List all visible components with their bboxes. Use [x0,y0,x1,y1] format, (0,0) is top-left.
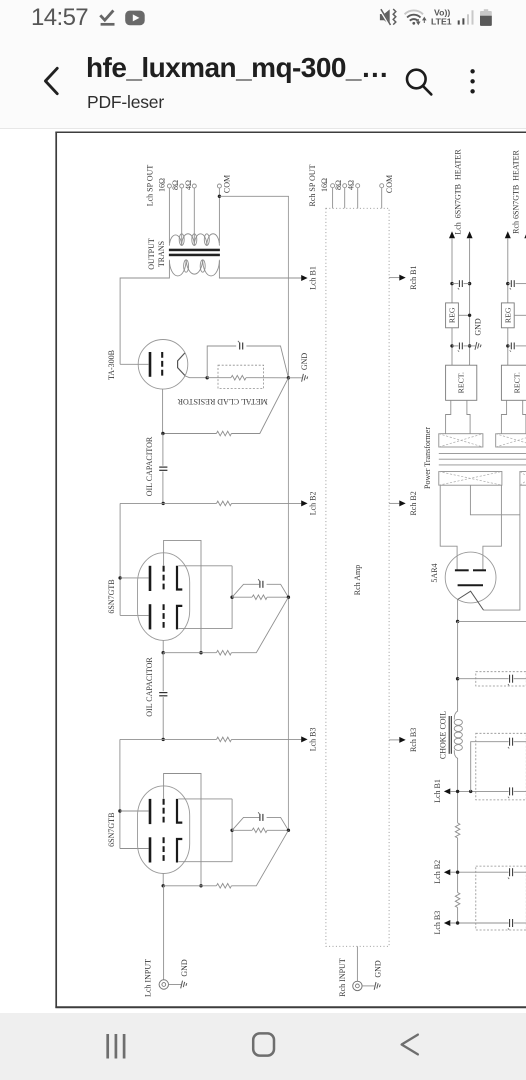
arrow Rch B3 [399,737,405,743]
svg-text:GND: GND [180,959,189,977]
svg-text:5AR4: 5AR4 [430,563,439,582]
wire 16ohm tap [168,188,170,243]
wire Lch B2 supply row [450,871,508,873]
wire V2 cathode1 lead [178,565,232,567]
output transformer T1 secondary winding [169,234,219,246]
appbar icon back [45,68,57,93]
wire heater cap row 3 [508,283,526,285]
wire Rch input ground stem [362,985,374,987]
node heater cap 2b [468,344,471,347]
capacitor filter C upper [510,868,513,876]
arrow Lch B1 [301,275,307,281]
node heater cap 2a [450,344,453,347]
wire primary right lead to Lch B1 [219,261,301,278]
tube V3 grid (section 2) [163,837,165,862]
svg-text:Lch B2: Lch B2 [309,492,318,516]
wire REG output stub [458,314,469,316]
appbar icon overflow menu [470,69,474,93]
tube V2 plate (section 1) [149,566,152,591]
wire V2 lower wire to cathode bus diagonal [231,597,288,653]
resistor V1 grid leak [216,431,231,436]
transformer heater winding (Lch) [439,434,483,447]
schematic border frame bottom [55,1006,526,1008]
capacitor filter B lower [510,787,513,795]
wire metal clad resistor to ground node [246,377,288,379]
tube V2 plate (section 2) [149,604,152,629]
wire V2 cathode2 lead [178,628,232,630]
wire V1 cathode lead [184,376,207,378]
svg-text:Rch 6SN7GTB HEATER: Rch 6SN7GTB HEATER [511,149,520,233]
wire B3 line to arrow [232,738,302,740]
speaker terminal 4ohm (Lch) [192,184,196,188]
wire B+ rail below choke [457,758,459,823]
wire Rch B2 stub [389,502,399,504]
node driver2 plate bus junction [118,809,121,812]
capacitor heater filter 1 (Rch) [511,280,514,287]
polarity mark [508,684,509,686]
svg-text:6SN7GTB: 6SN7GTB [107,813,116,847]
wire filter cap B upper branch [471,742,509,792]
node V2 cathode bus junction [287,596,290,599]
status icon mute-vibrate [380,9,396,26]
capacitor oil coupling 1 [159,467,167,470]
svg-text:Rch Amp: Rch Amp [353,565,362,595]
capacitor oil coupling 2 [159,693,167,696]
node B1 rail [456,790,459,793]
node driver1 plate bus junction [118,576,121,579]
node B2 rail [456,871,459,874]
capacitor filter B upper [510,738,513,746]
node heater cap 1a [450,282,453,285]
wire B+ rail upper [457,621,459,711]
ground symbol (Lch input) [181,981,187,989]
wire 8ohm tap [181,188,183,241]
wire filter cap C lower tail [514,922,526,924]
svg-text:TRANS: TRANS [157,241,166,267]
svg-text:6SN7GTB: 6SN7GTB [107,579,116,613]
wire Lch heater line b [469,238,471,365]
wire V2 cathode bypass to bus [267,584,289,597]
node B1 cap tie [469,790,472,793]
wire Rch input lead [356,946,358,981]
resistor V3 cathode [252,828,267,833]
wire cathode to metal clad resistor [207,377,231,379]
node V3 lower wire left [162,884,165,887]
wire V3 lower grid wire [163,885,216,887]
wire to oil capacitor 1 [162,434,164,466]
status icon signal bars [458,10,474,24]
wire V3 cathode bypass to bus [267,817,289,830]
wire rail B1-B2 [457,838,459,893]
navigation bar background [0,1013,526,1080]
wire V3 cathode resistor to bus [267,829,288,831]
tube V1 plate [149,352,152,377]
wire driver2 plate lead a [120,810,149,812]
wire heater cap row 1 [452,283,470,285]
svg-text:CHOKE COIL: CHOKE COIL [438,711,447,759]
svg-text:COM: COM [223,175,232,193]
wire filter cap B upper tail [514,741,526,743]
svg-text:METAL CLAD RESISTOR: METAL CLAD RESISTOR [177,397,268,406]
svg-text:Rch B1: Rch B1 [409,265,418,289]
svg-text:8Ω: 8Ω [171,180,180,190]
wire RECT to heater winding (Rch) [501,400,526,433]
wire RECT to heater winding (Lch) [446,400,471,433]
status icon battery [480,9,492,26]
tube V4 5AR4 envelope [445,552,496,603]
wire Lch B1 supply row [450,790,508,792]
svg-text:GND: GND [374,960,383,978]
svg-text:LTE1: LTE1 [431,17,452,27]
wire V2 cathode to resistor [232,596,252,598]
app top chrome background [0,0,526,129]
wire V3 cathode1 lead [178,798,232,800]
resistor V3 grid stopper [216,884,231,889]
schematic border frame top [55,131,526,133]
capacitor V3 cathode bypass [260,814,263,821]
tube V2 cathode (section 1) [177,566,182,590]
arrow Lch B3 (supply) [444,920,450,926]
wire V1 plate lead [120,363,149,365]
svg-text:Lch 6SN7GTB HEATER: Lch 6SN7GTB HEATER [453,149,462,235]
regulator REG box (Lch) [446,303,459,328]
ground symbol (Rch input) [374,982,380,990]
polarity mark [458,288,459,290]
wire heater cap row 2 [452,345,470,347]
wire Rch B1 stub [389,277,399,279]
wire filament winding lead [484,485,520,610]
speaker terminal 16ohm (Lch) [167,184,171,188]
wire V2 lower grid wire [163,652,216,654]
polarity mark [508,797,509,799]
svg-text:Lch B3: Lch B3 [433,911,442,935]
wire Rch 16ohm lead [332,188,334,209]
arrow Rch heater supply a [505,231,511,238]
appbar icon search [407,70,431,95]
wire filter cap B lower tail [514,790,526,792]
wire V3 cathode bypass branch [232,817,259,830]
wire Lch B2 feed line [120,502,216,504]
resistor B1-B2 dropping [455,823,460,838]
svg-text:Rch B2: Rch B2 [409,491,418,515]
filter capacitor B dashed can [476,733,526,800]
svg-text:16Ω: 16Ω [320,178,329,192]
node driver1 plate node [162,502,165,505]
svg-text:RECT.: RECT. [457,372,466,393]
wire heater cap row 4 [508,345,526,347]
ground symbol (output stage) [302,374,308,382]
tube V4 cathode [458,584,483,586]
polarity mark [258,812,259,814]
node V1 cathode [206,376,209,379]
node B3 rail [456,921,459,924]
node V2 lower wire left [162,651,165,654]
wire Rch B3 stub [389,739,399,741]
wire V3 cathode tie [231,799,233,862]
wire 5AR4 cathode output lead [457,600,459,622]
svg-text:Power Transformer: Power Transformer [423,427,432,489]
arrow Rch B2 [399,500,405,506]
resistor Lch B2 dropping [217,501,232,506]
wire driver2 plate lead b [120,848,149,850]
wire COM tap [218,188,220,243]
node V1 grid node [161,432,164,435]
terminal Rch INPUT jack [353,981,362,990]
svg-text:8Ω: 8Ω [334,180,343,190]
output transformer T1 primary winding [169,260,219,276]
svg-text:GND: GND [474,318,483,336]
regulator REG box (Rch) [501,303,514,328]
polarity mark [510,350,511,352]
svg-text:Lch SP OUT: Lch SP OUT [145,165,154,207]
wire V1 grid lead down [162,389,164,433]
choke coil winding [454,711,462,758]
capacitor heater filter 1 (Lch) [459,280,462,287]
label OUTPUT TRANS [147,238,166,270]
wire V2 grid1 top lead [164,540,201,652]
tube V3 cathode (section 1) [177,799,182,823]
wire primary left lead to plate bus [120,261,169,364]
svg-text:Rch B3: Rch B3 [409,728,418,752]
wire oil capacitor 2 to driver2 plate line [162,697,164,739]
svg-text:RECT.: RECT. [513,372,522,393]
node COM junction [218,195,221,198]
tube V3 grid (section 1) [163,799,165,824]
polarity mark [508,747,509,749]
status icon youtube [125,11,145,26]
status text VoLTE [431,7,452,26]
capacitor filter C lower [510,919,513,927]
resistor V2 grid stopper [216,650,231,655]
svg-text:Lch B1: Lch B1 [309,266,318,290]
svg-text:4Ω: 4Ω [347,180,356,190]
Rch amplifier block dotted box [326,208,389,946]
svg-text:Lch B3: Lch B3 [309,728,318,752]
capacitor cathode bypass (TA-300B) [240,343,243,350]
wire Rch 8ohm lead [344,188,346,209]
resistor V2 cathode [252,595,267,600]
tube V3 plate (section 1) [149,799,152,824]
speaker terminal 8ohm (Rch) [343,184,347,188]
resistor metal clad (TA-300B cathode) [231,375,246,380]
ground bus (vertical, Lch) [287,196,289,830]
wire ground stem [288,377,301,379]
speaker terminal COM (Rch) [380,184,384,188]
tube V1 grid [161,352,163,377]
wire driver2 plate bus [119,739,121,848]
wire HV winding right lead to 5AR4 plate [483,485,502,570]
power transformer core [439,453,526,465]
polarity mark [458,350,459,352]
filter capacitor A dashed can [476,672,526,686]
polarity mark [508,928,509,930]
svg-text:REG: REG [503,307,512,323]
wire rail B2-B3 [457,908,459,924]
svg-text:OIL CAPACITOR: OIL CAPACITOR [145,436,154,496]
node V3 cathode bus junction [287,829,290,832]
wire grid leak to ground node diagonal [231,378,288,434]
tube V4 plate a [455,569,469,571]
node B+ output [456,620,459,623]
wire Rch heater line a [507,238,509,365]
node driver2 plate node [162,738,165,741]
node heater cap 1b [468,282,471,285]
tube V2 grid (section 1) [163,566,165,591]
wire 4ohm tap [193,188,195,241]
status bar clock [31,4,88,32]
svg-text:Rch SP OUT: Rch SP OUT [308,164,317,206]
wire Lch B3 supply row [450,922,508,924]
wire heater ground stem [470,345,476,347]
node V3 cathode [230,829,233,832]
arrow Rch B1 [399,275,405,281]
tube V2 6SN7GTB envelope [138,553,190,641]
output transformer T1 core [169,249,220,257]
capacitor filter A [510,675,513,683]
wire V2 cathode resistor to bus [267,596,288,598]
svg-text:OUTPUT: OUTPUT [147,238,156,270]
wire driver1 plate bus [119,503,121,615]
wire V3 cathode2 lead [178,861,232,863]
wire cathode bypass cap to ground node [246,346,288,378]
wire driver1 plate lead b [120,614,149,616]
wire to filter cap A [458,678,509,680]
wire Lch heater line a [451,238,453,365]
svg-text:TA-300B: TA-300B [107,350,116,380]
arrow Lch B1 (supply) [444,788,450,794]
wire filter cap A tail [514,678,526,680]
polarity mark [238,341,239,343]
svg-text:REG: REG [448,307,457,323]
wire Lch input lead [163,886,165,980]
node heater cap 3a [506,282,509,285]
node V3 lower wire right [199,884,202,887]
svg-text:COM: COM [385,175,394,193]
wire driver1 plate lead a [120,577,149,579]
rectifier RECT box (Lch) [446,365,477,400]
metal clad resistor dashed enclosure [218,365,264,388]
resistor B2-B3 dropping [455,893,460,908]
speaker terminal 8ohm (Lch) [180,184,184,188]
app bar subtitle [87,92,164,113]
svg-text:4Ω: 4Ω [184,180,193,190]
wire Rch COM lead [381,188,383,209]
svg-text:16Ω: 16Ω [158,178,167,192]
app bar title [86,52,388,84]
choke coil core [449,716,451,754]
tube V3 plate (section 2) [149,837,152,862]
schematic border frame left [55,132,57,1008]
node ground junction [287,376,290,379]
wire REG output stub (Rch) [514,314,526,316]
transformer HV secondary winding [439,472,502,486]
capacitor V2 cathode bypass [260,581,263,588]
wire Lch input ground stem [169,984,182,986]
wire V3 grid1 top lead [164,774,201,886]
svg-text:Lch INPUT: Lch INPUT [144,959,153,997]
wire cathode bypass cap branch [207,346,236,378]
wire V2 grid2 bottom lead [162,640,164,652]
resistor Lch B3 dropping [217,737,232,742]
tube V4 plate b [473,569,486,571]
wire filter cap C upper tail [514,871,526,873]
arrow Lch B2 (supply) [444,869,450,875]
filter capacitor C dashed can [476,866,526,930]
arrow Lch heater supply a [449,231,455,238]
wire V3 lower wire to cathode bus diagonal [231,830,288,886]
tube V3 cathode (section 2) [177,839,182,863]
wire HV center tap [470,485,520,515]
wire to oil capacitor 2 [162,653,164,692]
polarity mark [510,288,511,290]
wire HV winding left lead to 5AR4 plate [440,485,457,570]
tube V1 cathode [178,353,185,375]
status icon wifi [405,10,426,24]
svg-text:Rch INPUT: Rch INPUT [338,958,347,997]
node V2 lower wire right [199,651,202,654]
wire B+ to offpage [458,620,526,622]
rectifier RECT box (Rch) [501,365,526,400]
wire COM to ground bus [219,195,288,198]
ground symbol (heater, Lch) [475,342,481,350]
arrow Rch heater supply b [524,231,526,238]
node heater cap 4a [506,344,509,347]
speaker terminal 4ohm (Rch) [356,184,360,188]
wire oil capacitor 1 to driver plate line [162,472,164,504]
navbar icon back [402,1035,418,1055]
svg-text:Lch B2: Lch B2 [433,860,442,884]
arrow Lch B3 [301,736,307,742]
transformer rectifier filament winding [520,472,526,486]
svg-text:OIL CAPACITOR: OIL CAPACITOR [145,657,154,717]
tube V3 6SN7GTB envelope [138,786,190,874]
svg-text:Lch B1: Lch B1 [433,779,442,803]
speaker terminal 16ohm (Rch) [331,184,335,188]
polarity mark [258,579,259,581]
node REG stub [468,314,471,317]
node V2 cathode [230,596,233,599]
tube V1 TA-300B envelope [138,340,188,390]
tube V4 filament [458,591,484,610]
wire V3 cathode to resistor [232,829,252,831]
wire V2 cathode bypass branch [232,584,259,597]
wire V3 grid2 bottom lead [162,874,164,886]
capacitor heater filter 2 (Rch) [511,343,514,350]
terminal Lch INPUT jack [159,980,168,989]
tube V2 cathode (section 2) [177,606,182,630]
navbar icon recents [108,1034,124,1059]
wire Rch 4ohm lead [357,188,359,209]
speaker terminal COM (Lch) [217,184,221,188]
navbar icon home [253,1033,274,1055]
tube V2 grid (section 2) [163,604,165,629]
capacitor heater filter 2 (Lch) [459,343,462,350]
svg-text:GND: GND [300,353,309,371]
wire B2 line to arrow [232,502,302,504]
arrow Lch heater supply b [467,231,473,238]
wire V2 cathode tie [231,566,233,629]
status icon download check [100,10,114,24]
node filter cap A junction [456,677,459,680]
wire Lch B3 feed line [120,738,217,740]
wire grid return with resistor [163,433,217,435]
transformer heater winding (Rch) [496,434,526,447]
arrow Lch B2 [301,500,307,506]
polarity mark [508,878,509,880]
